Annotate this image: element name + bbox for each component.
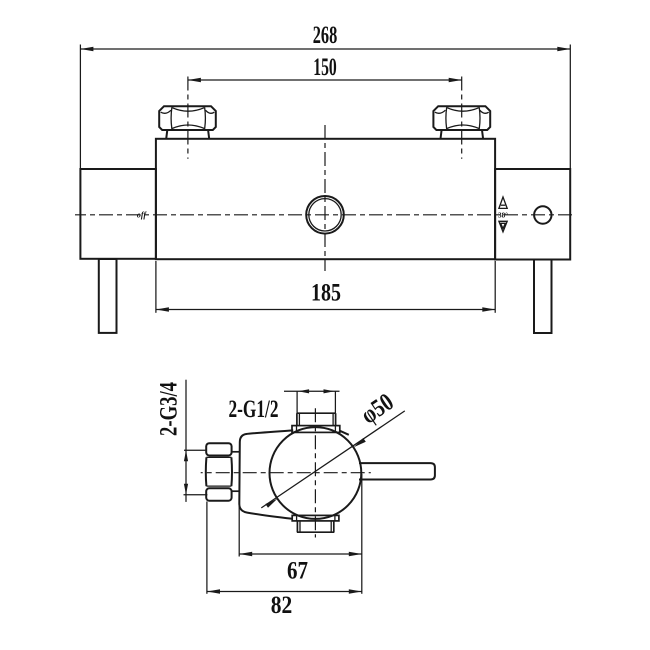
svg-text:67: 67 [287, 558, 308, 585]
main horizontal centerline [75, 214, 575, 216]
center vertical centerline [324, 125, 326, 271]
center outlet boss [306, 196, 344, 234]
svg-text:82: 82 [271, 592, 293, 619]
right nut centerline [461, 77, 463, 159]
dimension 67 left extension [238, 505, 240, 557]
right mounting leg [534, 260, 552, 334]
bottom stub thread [296, 521, 298, 532]
valve main body [156, 139, 495, 259]
nut-body connector [232, 451, 240, 453]
dimension 82 left extension [206, 502, 208, 594]
G1/2 left extension [296, 391, 298, 413]
svg-text:off: off [137, 211, 148, 220]
phi50 upper arrow [354, 438, 366, 447]
bottom stub flange [292, 515, 339, 521]
left mounting leg [99, 259, 117, 333]
dimension 82 line [207, 591, 362, 593]
dimension 268 left extension [79, 45, 81, 169]
valve body circle phi50 [270, 427, 362, 519]
side vertical centerline [314, 408, 316, 537]
indicator up triangle [499, 197, 507, 208]
dimension 185 line [156, 309, 495, 311]
svg-text:150: 150 [313, 54, 337, 81]
svg-text:2-G1/2: 2-G1/2 [229, 396, 279, 423]
G1/2 dimension line [284, 390, 340, 392]
phi50 lower arrow [265, 499, 277, 508]
G3/4 top extension [184, 449, 206, 451]
svg-text:φ50: φ50 [356, 389, 398, 430]
top stub flange [292, 426, 340, 433]
dimension 185 right extension [494, 261, 496, 313]
indicator down triangle [499, 221, 507, 232]
left nut centerline [187, 77, 189, 159]
svg-text:185: 185 [311, 280, 341, 307]
top stub thread [296, 413, 298, 425]
left nut neck [166, 130, 167, 139]
dimension 150 line [188, 79, 462, 81]
G3/4 swivel nut top facet [206, 443, 231, 455]
G3/4 swivel nut bottom facet [206, 488, 231, 500]
handle bar [359, 463, 435, 479]
phi50 diameter line [261, 411, 405, 508]
left end block [80, 169, 155, 259]
right inlet hex nut [433, 106, 490, 130]
side body outline [239, 430, 293, 519]
right end block [495, 169, 570, 260]
left inlet hex nut [159, 106, 216, 130]
dimension 268 right extension [569, 45, 571, 169]
svg-text:268: 268 [313, 22, 338, 49]
diverter knob circle [534, 206, 551, 223]
G3/4 dimension line [185, 380, 187, 502]
dimension 67 line [239, 553, 362, 555]
dimension 185 left extension [155, 261, 157, 313]
G3/4 swivel nut middle facet [205, 457, 208, 486]
dimension 67-82 right extension [361, 474, 363, 594]
side horizontal centerline [201, 472, 371, 474]
side body right shoulder top [340, 431, 349, 435]
G1/2 right extension [334, 391, 336, 413]
dimension 268 line [80, 48, 570, 50]
svg-text:2-G3/4: 2-G3/4 [156, 382, 183, 436]
G3/4 bottom extension [184, 494, 208, 496]
svg-text:38°: 38° [498, 211, 508, 219]
right nut neck [441, 130, 442, 139]
